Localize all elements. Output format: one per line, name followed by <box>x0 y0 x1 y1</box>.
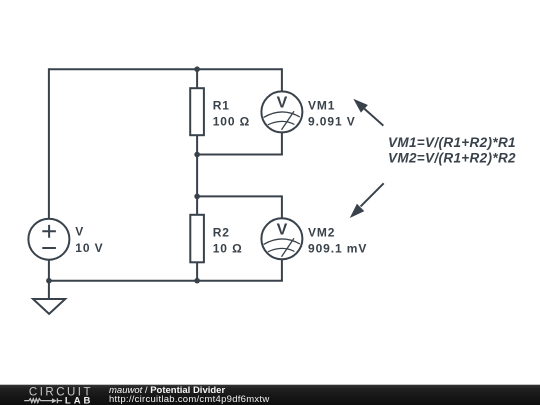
wire: VM1 loop bottom horizontal <box>197 154 282 156</box>
svg-text:http://circuitlab.com/cmt4p9df: http://circuitlab.com/cmt4p9df6mxtw <box>109 394 269 405</box>
wire: R2 bottom lead <box>196 263 198 281</box>
node junction dot R1 bottom / VM1 loop <box>194 152 200 158</box>
svg-text:909.1 mV: 909.1 mV <box>308 241 367 255</box>
node junction dot R2 top / VM2 loop <box>194 194 200 200</box>
wire: R2 loop top horizontal <box>197 195 282 197</box>
wire: VM2 bottom lead <box>281 260 283 281</box>
svg-text:LAB: LAB <box>65 396 94 405</box>
arrow to VM1 <box>353 99 383 126</box>
resistor R2 <box>190 215 204 262</box>
wire: source bottom to ground <box>48 260 50 298</box>
wire: left rail down to source top <box>48 68 50 218</box>
resistor R1 <box>190 88 204 135</box>
svg-text:V: V <box>75 225 84 239</box>
wire: VM2 top lead <box>281 195 283 218</box>
svg-text:R2: R2 <box>213 225 230 239</box>
svg-text:VM1=V/(R1+R2)*R1: VM1=V/(R1+R2)*R1 <box>388 135 516 150</box>
ground <box>33 299 65 314</box>
voltage source V1 <box>28 219 69 260</box>
arrow to VM2 <box>350 183 384 218</box>
footer bar <box>0 385 540 405</box>
voltmeter VM1 <box>261 91 302 132</box>
wire: VM1 bottom lead <box>281 133 283 156</box>
logo resistor-diode glyph <box>24 399 52 403</box>
wire: resistor column R1 top lead <box>196 68 198 88</box>
wire: VM1 top lead <box>281 68 282 92</box>
svg-text:VM2: VM2 <box>308 225 335 239</box>
node junction dot source bottom rail <box>46 278 52 284</box>
svg-text:V: V <box>277 95 288 112</box>
svg-text:10 Ω: 10 Ω <box>213 242 243 256</box>
svg-text:VM1: VM1 <box>308 98 335 112</box>
wire: top rail from source to VM1 column <box>49 68 282 70</box>
voltmeter VM2 <box>261 218 302 259</box>
wire: R1 bottom lead through middle junctions to R2 top <box>196 136 198 215</box>
wire: bottom rail <box>49 280 283 282</box>
svg-text:V: V <box>277 222 288 239</box>
svg-text:9.091 V: 9.091 V <box>308 114 356 128</box>
svg-text:VM2=V/(R1+R2)*R2: VM2=V/(R1+R2)*R2 <box>388 150 516 165</box>
node junction dot top of R1 <box>194 66 200 72</box>
svg-text:R1: R1 <box>213 98 230 112</box>
node junction dot R2 bottom rail <box>194 278 200 284</box>
svg-text:100 Ω: 100 Ω <box>213 115 250 129</box>
svg-text:10 V: 10 V <box>75 241 103 255</box>
